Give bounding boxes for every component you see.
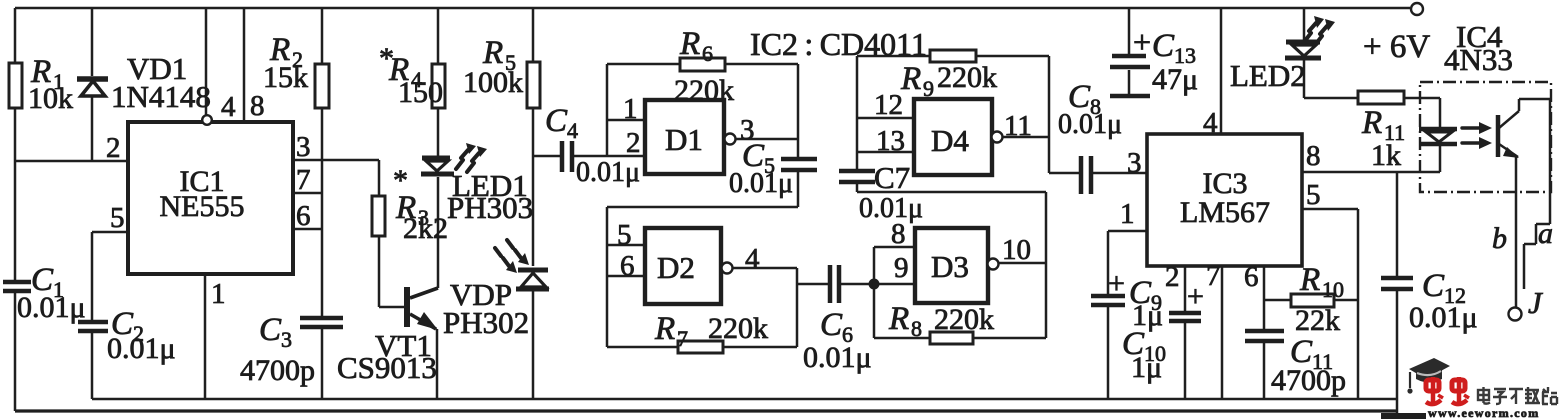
- svg-text:5: 5: [110, 202, 125, 234]
- svg-text:b: b: [1492, 222, 1507, 255]
- svg-text:0.01μ: 0.01μ: [729, 168, 793, 199]
- svg-text:4700p: 4700p: [240, 354, 315, 387]
- svg-text:13: 13: [876, 125, 905, 157]
- svg-text:150: 150: [398, 76, 443, 109]
- svg-text:D4: D4: [931, 123, 969, 158]
- svg-text:2: 2: [626, 127, 641, 159]
- svg-text:C: C: [1152, 28, 1175, 64]
- svg-text:LM567: LM567: [1180, 196, 1270, 229]
- svg-text:1μ: 1μ: [1131, 351, 1162, 384]
- svg-text:1: 1: [211, 278, 226, 310]
- svg-text:0.01μ: 0.01μ: [576, 157, 640, 188]
- svg-text:8: 8: [911, 316, 922, 341]
- svg-text:NE555: NE555: [160, 190, 245, 223]
- svg-text:11: 11: [1004, 110, 1032, 142]
- svg-text:R: R: [900, 61, 921, 97]
- svg-text:CS9013: CS9013: [337, 350, 437, 385]
- svg-text:220k: 220k: [674, 74, 734, 107]
- svg-text:6: 6: [1244, 261, 1259, 293]
- svg-text:0.01μ: 0.01μ: [1409, 301, 1478, 334]
- svg-text:0.01μ: 0.01μ: [107, 332, 176, 365]
- svg-text:8: 8: [891, 218, 906, 250]
- svg-text:4: 4: [221, 91, 236, 123]
- svg-text:4: 4: [1203, 107, 1218, 139]
- svg-text:1: 1: [623, 93, 638, 125]
- svg-text:220k: 220k: [937, 61, 997, 94]
- svg-text:www.eeworm.com: www.eeworm.com: [1428, 406, 1540, 419]
- svg-text:9: 9: [923, 76, 934, 101]
- svg-text:C: C: [259, 312, 282, 348]
- svg-text:3: 3: [281, 327, 292, 352]
- svg-text:6: 6: [296, 200, 311, 232]
- svg-text:C: C: [545, 103, 568, 139]
- svg-text:7: 7: [1206, 260, 1221, 292]
- svg-text:C: C: [820, 307, 843, 343]
- svg-text:100k: 100k: [463, 66, 523, 99]
- svg-text:R: R: [679, 26, 700, 62]
- svg-text:1: 1: [1120, 198, 1135, 230]
- svg-text:LED2: LED2: [1230, 58, 1306, 93]
- svg-text:D3: D3: [931, 249, 969, 284]
- svg-text:4: 4: [567, 118, 578, 143]
- svg-text:22k: 22k: [1295, 304, 1340, 337]
- svg-text:4: 4: [745, 243, 760, 275]
- svg-text:6: 6: [620, 250, 635, 282]
- svg-text:10k: 10k: [28, 82, 73, 115]
- svg-text:+ 6V: + 6V: [1363, 29, 1430, 65]
- svg-text:IC2 : CD4011: IC2 : CD4011: [750, 26, 927, 62]
- svg-text:R: R: [1299, 262, 1320, 298]
- svg-text:12: 12: [874, 89, 903, 121]
- svg-text:10: 10: [1322, 277, 1344, 302]
- svg-text:PH303: PH303: [447, 190, 533, 225]
- svg-text:4N33: 4N33: [1444, 42, 1513, 77]
- svg-text:C7: C7: [874, 160, 910, 195]
- svg-text:R: R: [1361, 105, 1382, 141]
- svg-text:7: 7: [677, 326, 688, 351]
- svg-text:4700p: 4700p: [1271, 364, 1346, 397]
- svg-text:7: 7: [296, 164, 311, 196]
- svg-text:8: 8: [1306, 140, 1321, 172]
- svg-text:3: 3: [296, 131, 311, 163]
- svg-text:1N4148: 1N4148: [111, 79, 211, 114]
- svg-text:2k2: 2k2: [403, 212, 448, 245]
- svg-text:J: J: [1528, 285, 1543, 320]
- svg-text:a: a: [1538, 217, 1553, 250]
- svg-text:+: +: [1133, 24, 1151, 60]
- svg-text:R: R: [654, 311, 675, 347]
- svg-text:9: 9: [894, 252, 909, 284]
- svg-text:+: +: [1187, 280, 1204, 313]
- svg-text:8: 8: [250, 90, 265, 122]
- svg-text:220k: 220k: [934, 303, 994, 336]
- svg-text:6: 6: [702, 41, 713, 66]
- svg-text:0.01μ: 0.01μ: [803, 341, 872, 374]
- svg-text:2: 2: [106, 132, 121, 164]
- svg-text:47μ: 47μ: [1152, 63, 1198, 96]
- svg-text:220k: 220k: [708, 312, 768, 345]
- svg-text:C: C: [1422, 268, 1445, 304]
- svg-text:15k: 15k: [263, 61, 308, 94]
- svg-text:0.01μ: 0.01μ: [17, 291, 86, 324]
- svg-text:2: 2: [1165, 261, 1180, 293]
- svg-text:+: +: [1108, 267, 1125, 300]
- svg-text:3: 3: [1127, 147, 1142, 179]
- svg-text:D2: D2: [657, 250, 695, 285]
- svg-text:PH302: PH302: [443, 305, 529, 340]
- svg-text:1k: 1k: [1371, 139, 1401, 172]
- svg-text:5: 5: [1306, 179, 1321, 211]
- svg-text:R: R: [888, 301, 909, 337]
- svg-text:0.01μ: 0.01μ: [1058, 109, 1122, 140]
- svg-text:10: 10: [1002, 234, 1031, 266]
- svg-text:5: 5: [617, 219, 632, 251]
- svg-text:D1: D1: [665, 122, 703, 157]
